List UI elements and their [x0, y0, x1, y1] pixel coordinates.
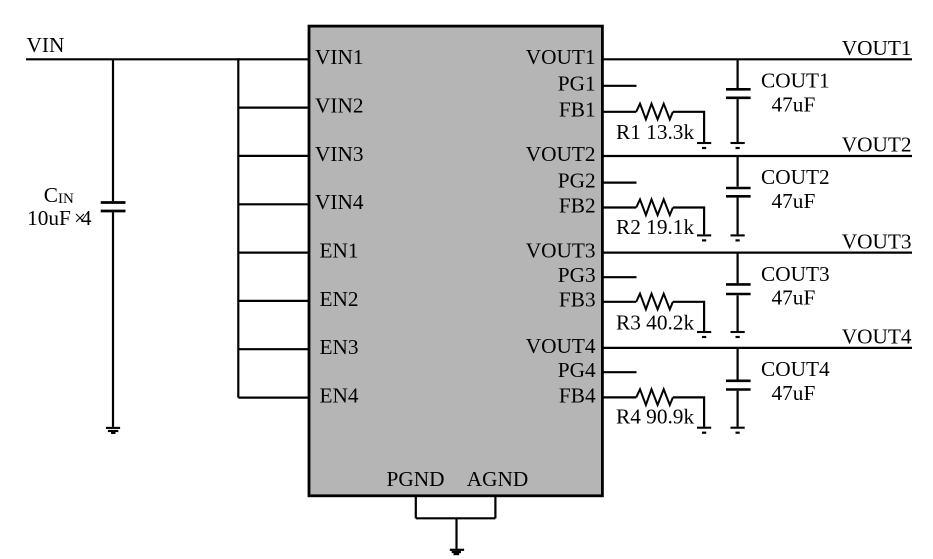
wire FB1 to resistor — [603, 111, 636, 113]
svg-text:COUT2: COUT2 — [761, 165, 830, 189]
resistor R4 — [636, 389, 673, 405]
value label COUT3 — [761, 262, 830, 286]
pin label PG4 — [558, 358, 596, 382]
pin label FB2 — [559, 193, 596, 217]
ground for COUT2 — [731, 235, 745, 240]
wire resistor R4 to ground — [673, 397, 704, 426]
svg-text:VIN3: VIN3 — [315, 142, 364, 166]
svg-text:R3 40.2k: R3 40.2k — [616, 311, 694, 335]
capacitor COUT2 lead bottom — [736, 198, 738, 235]
wire stub to VIN2 — [238, 106, 309, 108]
wire VIN horizontal — [26, 58, 309, 60]
pin label FB3 — [559, 288, 596, 312]
pin label VOUT2 — [526, 142, 596, 166]
wire FB3 to resistor — [603, 301, 636, 303]
node VOUT4 label — [842, 325, 912, 349]
value label R2 — [616, 215, 694, 239]
pin label PG1 — [558, 72, 596, 96]
svg-text:VOUT2: VOUT2 — [526, 142, 596, 166]
wire stub to VIN3 — [238, 155, 309, 157]
svg-text:PG1: PG1 — [558, 72, 596, 96]
pin label VOUT4 — [526, 334, 596, 358]
svg-text:PG2: PG2 — [558, 169, 596, 193]
svg-text:R2 19.1k: R2 19.1k — [616, 215, 694, 239]
ground for COUT3 — [731, 332, 745, 337]
capacitor COUT4 lead bottom — [736, 391, 738, 427]
value label COUT1 — [761, 69, 830, 93]
wire resistor R1 to ground — [673, 112, 704, 142]
svg-text:EN4: EN4 — [320, 384, 359, 408]
wire stub to EN4 — [238, 397, 309, 399]
svg-text:COUT3: COUT3 — [761, 262, 830, 286]
svg-text:FB2: FB2 — [559, 193, 596, 217]
svg-text:10uF: 10uF — [27, 206, 71, 230]
wire to system ground — [455, 518, 457, 549]
resistor R2 — [636, 199, 673, 215]
wire FB2 to resistor — [603, 206, 636, 208]
svg-text:EN3: EN3 — [320, 335, 359, 359]
pin label EN1 — [320, 239, 359, 263]
ground for COUT1 — [731, 143, 745, 148]
pin label PGND — [387, 467, 445, 491]
value label COUT1 47uF — [772, 92, 816, 116]
pin label VIN1 — [315, 45, 364, 69]
svg-text:VOUT4: VOUT4 — [842, 325, 912, 349]
capacitor COUT2 plates — [726, 188, 751, 196]
pin label FB4 — [559, 383, 596, 407]
wire VOUT1 output line — [603, 58, 912, 60]
svg-text:VIN4: VIN4 — [315, 190, 364, 214]
wire AGND pin drop — [494, 496, 496, 519]
capacitor CIN lead top — [112, 59, 114, 201]
svg-text:PG3: PG3 — [558, 263, 596, 287]
capacitor COUT3 lead bottom — [736, 295, 738, 331]
value label R3 — [616, 311, 694, 335]
wire VOUT2 output line — [603, 155, 912, 157]
svg-text:VOUT3: VOUT3 — [526, 239, 596, 263]
svg-text:47uF: 47uF — [772, 92, 816, 116]
capacitor COUT4 plates — [726, 381, 751, 390]
capacitor CIN plates — [101, 203, 126, 212]
pin label EN4 — [320, 384, 359, 408]
wire input bus vertical — [237, 58, 239, 397]
wire PG4 stub — [603, 371, 637, 373]
value label R1 — [616, 120, 694, 144]
wire PG3 stub — [603, 276, 637, 278]
ground for R3 — [697, 332, 711, 337]
pin label FB1 — [559, 98, 596, 122]
pin label EN2 — [320, 287, 359, 311]
svg-text:PG4: PG4 — [558, 358, 596, 382]
wire stub to EN2 — [238, 300, 309, 302]
value label COUT2 47uF — [772, 189, 816, 213]
svg-text:PGND: PGND — [387, 467, 445, 491]
svg-text:47uF: 47uF — [772, 381, 816, 405]
wire VOUT4 output line — [603, 347, 912, 349]
svg-text:47uF: 47uF — [772, 286, 816, 310]
svg-text:VIN: VIN — [27, 33, 65, 57]
node VOUT1 label — [842, 36, 912, 60]
svg-text:EN1: EN1 — [320, 239, 359, 263]
svg-text:VIN1: VIN1 — [315, 45, 364, 69]
svg-text:4: 4 — [81, 206, 92, 230]
pin label VOUT1 — [526, 45, 596, 69]
wire PG2 stub — [603, 182, 637, 184]
svg-text:VOUT4: VOUT4 — [526, 334, 596, 358]
resistor R1 — [636, 104, 673, 120]
value label CIN 10uF x4 — [27, 206, 92, 230]
node VIN label — [27, 33, 65, 57]
resistor R3 — [636, 294, 673, 310]
ground for R4 — [697, 428, 711, 433]
pin label VOUT3 — [526, 239, 596, 263]
capacitor COUT3 plates — [726, 284, 751, 294]
capacitor COUT3 lead top — [736, 253, 738, 284]
wire resistor R3 to ground — [673, 302, 704, 331]
value label COUT4 — [761, 357, 830, 381]
svg-text:R1 13.3k: R1 13.3k — [616, 120, 694, 144]
capacitor COUT1 plates — [726, 89, 751, 98]
wire PGND pin drop — [415, 496, 417, 519]
capacitor COUT2 lead top — [736, 156, 738, 187]
node VOUT2 label — [842, 133, 912, 157]
svg-text:VOUT2: VOUT2 — [842, 133, 912, 157]
wire stub to EN3 — [238, 348, 309, 350]
value label CIN — [44, 183, 74, 207]
wire resistor R2 to ground — [673, 208, 704, 235]
ground for COUT4 — [731, 428, 745, 433]
pin label VIN2 — [315, 94, 364, 118]
svg-text:EN2: EN2 — [320, 287, 359, 311]
svg-text:R4 90.9k: R4 90.9k — [616, 405, 694, 429]
pin label AGND — [467, 467, 529, 491]
wire FB4 to resistor — [603, 396, 636, 398]
svg-text:VOUT1: VOUT1 — [526, 45, 596, 69]
svg-text:FB4: FB4 — [559, 383, 596, 407]
pin label EN3 — [320, 335, 359, 359]
pin label PG2 — [558, 169, 596, 193]
value label COUT4 47uF — [772, 381, 816, 405]
wire PGND-AGND connector — [416, 517, 496, 519]
svg-text:47uF: 47uF — [772, 189, 816, 213]
value label R4 — [616, 405, 694, 429]
ground for CIN — [106, 428, 120, 433]
svg-text:FB3: FB3 — [559, 288, 596, 312]
value label COUT3 47uF — [772, 286, 816, 310]
ground system — [450, 550, 464, 554]
wire PG1 stub — [603, 85, 637, 87]
capacitor COUT1 lead bottom — [736, 99, 738, 142]
svg-text:VIN2: VIN2 — [315, 94, 364, 118]
wire stub to VIN4 — [238, 203, 309, 205]
svg-text:FB1: FB1 — [559, 98, 596, 122]
capacitor COUT1 lead top — [736, 59, 738, 88]
op-amp U1 quad LDO IC body — [309, 26, 602, 496]
svg-text:COUT1: COUT1 — [761, 69, 830, 93]
capacitor CIN lead bottom — [112, 212, 114, 427]
svg-text:AGND: AGND — [467, 467, 529, 491]
value label COUT2 — [761, 165, 830, 189]
svg-text:COUT4: COUT4 — [761, 357, 830, 381]
ground for R2 — [697, 235, 711, 240]
wire VOUT3 output line — [603, 252, 912, 254]
capacitor COUT4 lead top — [736, 348, 738, 380]
pin label VIN4 — [315, 190, 364, 214]
ground for R1 — [697, 143, 711, 148]
pin label VIN3 — [315, 142, 364, 166]
svg-text:VOUT1: VOUT1 — [842, 36, 912, 60]
node VOUT3 label — [842, 229, 912, 253]
pin label PG3 — [558, 263, 596, 287]
svg-text:VOUT3: VOUT3 — [842, 229, 912, 253]
wire stub to EN1 — [238, 252, 309, 254]
